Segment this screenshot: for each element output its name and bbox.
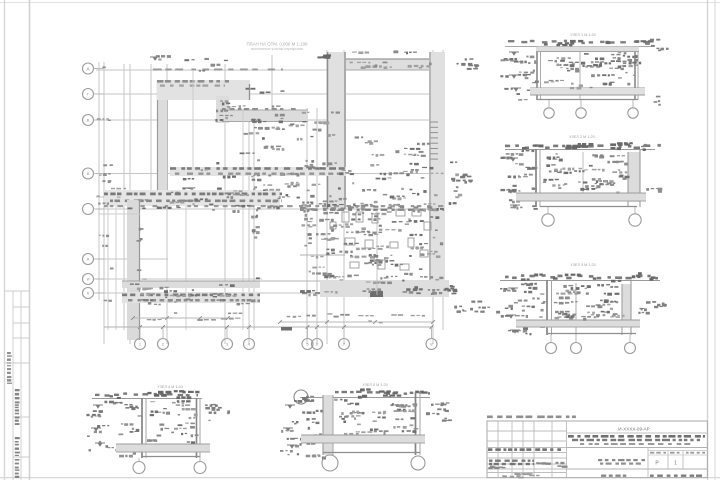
svg-text:ПЛАН НА ОТМ. 0,000 М 1:100: ПЛАН НА ОТМ. 0,000 М 1:100 bbox=[247, 42, 308, 47]
title block right part lines bbox=[567, 432, 708, 434]
detail 2 top dimension row bbox=[505, 149, 655, 151]
svg-text:1: 1 bbox=[674, 461, 677, 467]
detail 3 right marks bbox=[639, 308, 644, 309]
title block stadia boxes bbox=[647, 448, 649, 478]
left axis circles bbox=[83, 63, 94, 74]
wall: top slab right block bbox=[328, 59, 442, 70]
detail 4 slab bbox=[116, 444, 210, 452]
detail 5 top dimension row bbox=[300, 397, 430, 399]
detail 4 body bbox=[141, 398, 143, 458]
svg-text:монолитные участки перекрытия: монолитные участки перекрытия bbox=[251, 47, 303, 51]
detail 3 inner specks bbox=[587, 312, 590, 314]
title block horizontal lines left part bbox=[487, 430, 567, 432]
dashed wall line on top grid line bbox=[153, 69, 162, 71]
svg-text:Б: Б bbox=[87, 171, 90, 176]
svg-text:Д: Д bbox=[87, 66, 90, 71]
detail 5 left flags bbox=[285, 405, 295, 408]
svg-text:УЗЕЛ 1 М 1:20: УЗЕЛ 1 М 1:20 bbox=[570, 33, 595, 37]
sheet outer paper edge bottom bbox=[0, 477, 720, 479]
title block signature rows bbox=[489, 460, 493, 462]
detail 3 slab bbox=[516, 320, 640, 327]
speckle vertical strips central core bbox=[256, 226, 260, 228]
title block project name lines bbox=[568, 435, 574, 438]
detail 5 body bbox=[323, 395, 333, 455]
extra vertical lines lower plan bbox=[107, 200, 109, 330]
detail 2 body bbox=[535, 149, 537, 207]
detail 1 body walls bbox=[536, 46, 538, 100]
detail 1 inner specks bbox=[610, 82, 615, 83]
detail 4 top dimension row bbox=[92, 398, 202, 400]
wall: L extension below top slab bbox=[216, 96, 229, 123]
detail 2 slab bbox=[516, 193, 646, 201]
small row texts left bottom bbox=[490, 466, 494, 468]
title block left column lines bbox=[497, 421, 499, 478]
title block outer frame bbox=[487, 421, 708, 478]
dark blob in lower slab bbox=[370, 291, 383, 297]
speckle details top slab area bbox=[365, 65, 370, 68]
svg-text:УЗЕЛ 3 М 1:20: УЗЕЛ 3 М 1:20 bbox=[570, 263, 595, 267]
paper right edge bbox=[714, 0, 716, 480]
detail 1 top slab bbox=[536, 47, 639, 52]
wall: top slab of left block bbox=[157, 80, 250, 100]
plan vertical grid lines bbox=[98, 62, 100, 300]
wall: vertical wall A (x157-168) bbox=[157, 80, 168, 209]
wall: lower-left vertical wall bbox=[127, 200, 140, 340]
slab lower-left bbox=[122, 281, 260, 288]
wall: slab on grid line y115 bbox=[222, 110, 308, 122]
svg-text:УЗЕЛ 5 М 1:20: УЗЕЛ 5 М 1:20 bbox=[362, 383, 387, 387]
title block sheet name text bbox=[598, 459, 602, 461]
bottom axis circles bbox=[135, 339, 146, 350]
wall: right outer wall bbox=[429, 52, 445, 297]
organization name bottom bbox=[601, 475, 606, 477]
sanitary fixtures bbox=[342, 212, 349, 222]
detail 5 big left circle marker bbox=[294, 390, 308, 404]
note text above title block bbox=[487, 416, 493, 419]
bottom dimension lines bbox=[133, 317, 228, 319]
detail 4 left flags bbox=[93, 405, 103, 408]
detail 2 left flags bbox=[508, 158, 518, 161]
stair ladder symbol bbox=[431, 121, 439, 123]
wall band y167-176 bbox=[170, 167, 346, 176]
title block header row text bbox=[488, 448, 492, 451]
svg-text:УЗЕЛ 4 М 1:20: УЗЕЛ 4 М 1:20 bbox=[157, 385, 182, 389]
detail 5 slab bbox=[301, 435, 425, 443]
detail 5 inner specks bbox=[353, 412, 355, 413]
stadia headers bbox=[650, 452, 654, 454]
detail 3 axis circles bbox=[546, 343, 557, 354]
detail 3 body bbox=[546, 280, 548, 335]
detail 3 top dimension row bbox=[500, 280, 660, 282]
left attribute strip column lines bbox=[12, 291, 14, 480]
mid-plan dimension texts bbox=[419, 151, 424, 153]
speckle details lower-right sanitary block bbox=[410, 234, 414, 236]
detail 2 axis circles bbox=[542, 214, 554, 226]
frame left border bbox=[29, 0, 31, 480]
detail 2 inner specks bbox=[619, 175, 623, 177]
dense wall band y187-209 bbox=[104, 190, 280, 206]
slab connection line y281 bbox=[260, 280, 320, 282]
detail 1 bottom slab lines bbox=[530, 87, 645, 89]
frame right border bbox=[707, 0, 709, 480]
dark dim text left bbox=[281, 327, 292, 331]
detail 5 right marks bbox=[437, 408, 441, 410]
detail 1 axis circles bbox=[544, 108, 554, 118]
svg-text:В: В bbox=[87, 118, 90, 123]
paper left edge bbox=[4, 0, 6, 480]
right-side small marks next to plan bbox=[468, 65, 473, 67]
wall band lower-left y292-303 bbox=[122, 292, 260, 303]
detail 1 top dimension line bbox=[505, 46, 652, 48]
sheet outer paper edge top bbox=[0, 2, 720, 4]
speckle dimension digits bottom bbox=[228, 313, 231, 315]
svg-text:УЗЕЛ 2 М 1:20: УЗЕЛ 2 М 1:20 bbox=[569, 135, 594, 139]
detail 4 axis circles bbox=[133, 462, 145, 474]
dimension diagonal ticks bbox=[138, 325, 142, 329]
detail 2 right marks bbox=[657, 144, 661, 147]
detail 1 right marks bbox=[650, 39, 654, 41]
svg-text:И-ХХХХ-09-АР: И-ХХХХ-09-АР bbox=[618, 427, 649, 432]
svg-text:И: И bbox=[87, 277, 90, 282]
wall: central vertical wall (x327-346) bbox=[327, 52, 346, 209]
plan horizontal grid lines bbox=[96, 69, 332, 71]
speckle details upper-left rooms bbox=[204, 58, 209, 60]
detail 1 left level flags bbox=[509, 52, 519, 55]
vertical line x193 bbox=[192, 70, 194, 174]
speckle details middle rooms bbox=[450, 162, 453, 164]
attribute strip separators bbox=[5, 290, 30, 292]
detail 4 inner specks bbox=[171, 432, 174, 434]
plan top level flag bbox=[150, 57, 160, 60]
vertical text blocks in strip bbox=[7, 352, 11, 354]
detail 4 right marks bbox=[209, 412, 212, 414]
svg-text:А: А bbox=[87, 257, 90, 262]
detail 3 left flags bbox=[508, 288, 518, 291]
slab lower-right block bbox=[320, 280, 449, 297]
detail 5 axis circles bbox=[322, 455, 338, 471]
